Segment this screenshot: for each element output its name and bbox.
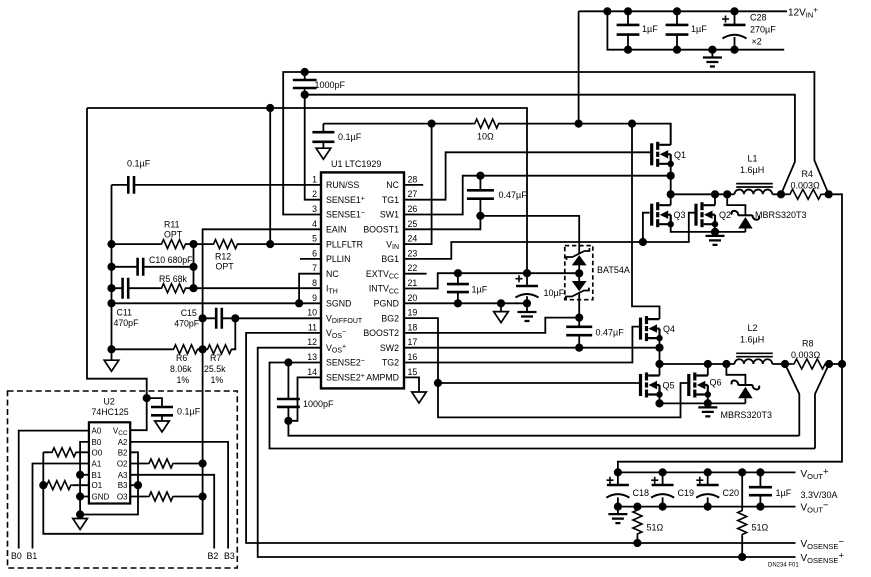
wire left ground bus vertical [111, 185, 113, 349]
svg-text:12: 12 [307, 337, 317, 347]
capacitor 10uF INTVCC bulk [516, 270, 565, 306]
transistor Q3 bottom MOSFET phase 1 [650, 202, 685, 227]
wire BG2 branch to Q6 gate [438, 383, 687, 417]
resistor R6 8.06k 1% [112, 345, 207, 385]
capacitor 1uF INTVCC [447, 270, 488, 306]
wire INTVCC distribution rail [87, 108, 527, 273]
wire pin 7 NC tie to SGND [299, 274, 321, 304]
svg-text:B3: B3 [224, 551, 235, 561]
svg-text:R5 68k: R5 68k [159, 274, 187, 284]
svg-text:MBRS320T3: MBRS320T3 [755, 210, 807, 220]
svg-text:B1: B1 [27, 551, 38, 561]
svg-text:3.3V/30A: 3.3V/30A [801, 490, 838, 500]
svg-text:470pF: 470pF [114, 318, 140, 328]
capacitor 1000pF sense filter top [293, 69, 346, 98]
ground U2 arrow [73, 515, 88, 530]
wire U2 A3 to B2 terminal [130, 475, 214, 549]
capacitor C10 680pF [112, 255, 194, 276]
wire SENSE2+ line to R8 left [288, 421, 799, 436]
pin 22 EXTVCC stub [404, 273, 427, 275]
transistor Q2 bottom MOSFET phase 1 [694, 202, 731, 227]
svg-text:TG2: TG2 [382, 358, 399, 368]
svg-text:1000pF: 1000pF [303, 399, 334, 409]
wire BG1 to Q2 gate [404, 213, 695, 259]
wire VIN pin riser [404, 124, 432, 245]
svg-text:U2: U2 [104, 397, 115, 407]
wire SENSE2+ pin 14 route [288, 377, 321, 420]
capacitor C11 470pF [112, 278, 161, 328]
svg-text:A2: A2 [118, 438, 128, 447]
svg-text:SENSE2−: SENSE2− [326, 358, 365, 368]
wire R8 kelvin right to SENSE2- line [815, 364, 829, 449]
wire phase1 source ground bar [671, 224, 746, 232]
wire TG2 to Q4 gate [404, 327, 639, 363]
capacitor C15 470pF [174, 308, 321, 329]
svg-text:16: 16 [408, 352, 418, 362]
wire VOUT+ rail [618, 471, 796, 473]
svg-text:4: 4 [312, 219, 317, 229]
svg-text:BG2: BG2 [381, 313, 399, 323]
svg-text:R6: R6 [176, 353, 187, 363]
wire Q6 drain riser [707, 364, 709, 376]
svg-text:C19: C19 [678, 488, 695, 498]
wire PGND pin line [404, 302, 527, 304]
svg-text:R12: R12 [215, 252, 231, 262]
svg-text:NC: NC [386, 180, 399, 190]
svg-text:L1: L1 [748, 154, 758, 164]
svg-text:13: 13 [307, 352, 317, 362]
svg-text:C11: C11 [117, 308, 133, 318]
svg-text:0.1µF: 0.1µF [177, 407, 201, 417]
capacitor 0.47uF boost1 [467, 173, 527, 220]
svg-text:BOOST2: BOOST2 [363, 328, 399, 338]
ground AMPMD arrow [412, 392, 427, 403]
capacitor 0.1uF RUN/SS [112, 159, 322, 194]
svg-text:20: 20 [408, 293, 418, 303]
svg-text:C20: C20 [723, 488, 740, 498]
svg-text:26: 26 [408, 204, 418, 214]
svg-text:PLLFLTR: PLLFLTR [326, 239, 363, 249]
svg-text:R8: R8 [802, 339, 814, 349]
svg-text:BG1: BG1 [381, 254, 399, 264]
wire INTVCC to PLLFLTR branch [269, 108, 271, 244]
capacitor C20 output bulk [696, 469, 739, 510]
inductor L2 1.6uH [660, 323, 786, 364]
svg-text:B0: B0 [11, 551, 22, 561]
svg-text:R7: R7 [210, 353, 221, 363]
ground phase1 earth [706, 236, 725, 245]
wire SW2 pin line [404, 347, 660, 349]
svg-text:OPT: OPT [216, 262, 235, 272]
resistor R4 0.003ohm current sense [778, 169, 832, 199]
svg-text:0.1µF: 0.1µF [127, 159, 151, 169]
svg-text:74HC125: 74HC125 [92, 407, 129, 417]
svg-text:0.003Ω: 0.003Ω [791, 181, 821, 191]
svg-text:SW2: SW2 [380, 343, 399, 353]
svg-text:21: 21 [408, 278, 418, 288]
svg-text:BOOST1: BOOST1 [363, 225, 399, 235]
svg-text:R11: R11 [164, 220, 180, 230]
wire BOOST2 pin route [404, 318, 579, 333]
svg-text:Q1: Q1 [674, 150, 686, 160]
wire EAIN trunk [43, 229, 321, 534]
ground input earth [703, 47, 722, 67]
inductor L1 1.6uH [671, 154, 781, 195]
pin 6 PLLIN stub [300, 258, 321, 260]
svg-text:TG1: TG1 [382, 195, 399, 205]
wire VOS+ pin 12 to VOSENSE+ line [258, 348, 796, 557]
wire SGND row pin 9 [112, 302, 322, 304]
svg-text:SW1: SW1 [380, 210, 399, 220]
svg-text:10Ω: 10Ω [477, 132, 494, 142]
svg-text:B3: B3 [118, 481, 128, 490]
svg-text:25.5k: 25.5k [204, 364, 226, 374]
resistor 51ohm VOSENSE+ termination [738, 469, 769, 560]
svg-text:19: 19 [408, 308, 418, 318]
svg-text:Q4: Q4 [663, 324, 675, 334]
wire U2 A1 to B1 terminal [33, 464, 89, 549]
svg-text:B2: B2 [118, 448, 128, 457]
svg-text:B2: B2 [208, 551, 219, 561]
diode MBRS320T3 phase 2 [721, 361, 773, 420]
transistor Q4 top MOSFET phase 2 [639, 316, 675, 341]
wire input cap ground rail [607, 11, 784, 49]
svg-text:MBRS320T3: MBRS320T3 [721, 410, 773, 420]
wire Q4 source to SW2 node [659, 338, 661, 375]
svg-text:PGND: PGND [374, 299, 399, 309]
svg-text:A3: A3 [118, 471, 128, 480]
wire SENSE1- top line pin3 to R4 right [283, 72, 829, 215]
svg-text:1.6µH: 1.6µH [740, 165, 764, 175]
svg-text:A1: A1 [92, 460, 102, 469]
svg-text:15: 15 [408, 367, 418, 377]
svg-text:10: 10 [307, 308, 317, 318]
wire phase2 source ground bar [660, 395, 746, 404]
wire INTVCC left trunk to U2 VCC [87, 108, 147, 430]
wire BG1 branch to Q3 gate [643, 213, 650, 242]
pin 28 NC stub [404, 184, 423, 186]
diode BAT54A dual schottky [565, 246, 630, 318]
wire Q2 drain riser [714, 194, 716, 205]
transistor Q1 top MOSFET phase 1 [650, 142, 686, 167]
svg-text:A0: A0 [92, 427, 102, 436]
svg-text:U1 LTC1929: U1 LTC1929 [331, 159, 381, 169]
svg-text:SGND: SGND [326, 299, 351, 309]
capacitor C28 270uF x2 input bulk [722, 8, 776, 53]
resistor R7 25.5k 1% [204, 318, 235, 385]
wire VOS- pin 11 to VOSENSE- line [246, 333, 795, 543]
wire 12V feed down-left [578, 11, 580, 123]
svg-text:470pF: 470pF [174, 318, 200, 328]
wire AMPMD to ground [404, 377, 419, 391]
svg-text:24: 24 [408, 234, 418, 244]
svg-text:R4: R4 [802, 169, 814, 179]
transistor Q6 bottom MOSFET phase 2 [687, 373, 721, 398]
svg-text:28: 28 [408, 174, 418, 184]
svg-text:1µF: 1µF [691, 24, 707, 34]
wire VOUT- rail [618, 506, 796, 508]
svg-text:AMPMD: AMPMD [366, 373, 399, 383]
wire TG1 to Q1 gate [404, 152, 650, 199]
svg-text:22: 22 [408, 263, 418, 273]
svg-text:51Ω: 51Ω [752, 523, 769, 533]
svg-text:SENSE1+: SENSE1+ [326, 195, 365, 205]
svg-text:0.47µF: 0.47µF [596, 328, 625, 338]
wire R4 output to VOUT feed [618, 194, 842, 472]
capacitor 0.1uF U2 bypass [144, 395, 201, 432]
node U2 clock buffer dashed boundary [8, 391, 238, 568]
svg-text:BAT54A: BAT54A [597, 265, 630, 275]
ground phase2 earth [698, 407, 717, 416]
resistor U2 O2 summing [130, 459, 206, 468]
wire U2 A2 to B3 terminal [130, 442, 228, 549]
svg-text:C28: C28 [750, 13, 767, 23]
svg-text:PLLIN: PLLIN [326, 254, 350, 264]
svg-text:NC: NC [326, 269, 339, 279]
svg-text:2: 2 [312, 189, 317, 199]
svg-text:B1: B1 [92, 471, 102, 480]
svg-text:0.003Ω: 0.003Ω [791, 350, 821, 360]
svg-text:Q5: Q5 [663, 381, 675, 391]
wire VIN 10ohm line [323, 124, 670, 145]
svg-text:0.1µF: 0.1µF [338, 132, 362, 142]
svg-text:7: 7 [312, 263, 317, 273]
ground PGND arrow [494, 300, 509, 323]
wire INTVCC pin line [404, 273, 579, 288]
svg-text:9: 9 [312, 293, 317, 303]
svg-text:1µF: 1µF [472, 285, 488, 295]
svg-text:DN234 F01: DN234 F01 [768, 563, 799, 569]
svg-text:17: 17 [408, 337, 418, 347]
svg-text:23: 23 [408, 248, 418, 258]
op-amp U2 74HC125 buffer box [89, 422, 130, 503]
wire SENSE2- pin 13 route [270, 363, 816, 449]
svg-text:0.47µF: 0.47µF [499, 190, 528, 200]
svg-text:8.06k: 8.06k [170, 364, 192, 374]
svg-text:8: 8 [312, 278, 317, 288]
wire 12V input top rail [579, 10, 787, 12]
resistor U2 O3 summing [130, 492, 206, 501]
resistor U2 O1 summing [40, 481, 89, 490]
svg-text:1.6µH: 1.6µH [740, 335, 764, 345]
svg-text:1000pF: 1000pF [315, 80, 346, 90]
svg-text:11: 11 [308, 322, 317, 332]
wire Q1 drain riser [670, 124, 672, 145]
capacitor 1uF output [749, 469, 792, 510]
svg-text:SENSE2+: SENSE2+ [326, 373, 365, 383]
resistor U2 O0 summing [43, 448, 89, 457]
capacitor 0.1uF VIN bypass [312, 124, 361, 160]
svg-text:14: 14 [307, 367, 317, 377]
resistor R8 0.003ohm current sense [782, 339, 845, 369]
transistor Q5 bottom MOSFET phase 2 [639, 373, 675, 398]
resistor R5 68k [159, 274, 321, 293]
svg-text:EAIN: EAIN [326, 225, 347, 235]
resistor 10ohm [473, 119, 500, 128]
resistor 51ohm VOSENSE- termination [633, 503, 664, 546]
capacitor C19 output bulk [651, 469, 694, 510]
svg-text:C10 680pF: C10 680pF [149, 255, 193, 265]
svg-text:1%: 1% [177, 375, 190, 385]
resistor R11 OPT [112, 220, 213, 249]
svg-text:Q2: Q2 [719, 210, 731, 220]
op-amp U1 LTC1929 controller box [321, 172, 404, 388]
ground VOUT- earth [608, 507, 627, 523]
wire SW1 pin line [404, 176, 671, 215]
svg-text:OPT: OPT [164, 230, 183, 240]
svg-text:25: 25 [408, 219, 418, 229]
wire U2 A0 to B0 terminal [19, 431, 89, 549]
svg-text:O3: O3 [117, 493, 128, 502]
svg-text:1%: 1% [211, 375, 224, 385]
svg-text:O1: O1 [92, 481, 103, 490]
wire BG2 to Q5 gate [404, 318, 639, 383]
capacitor 1000pF sense filter bottom [277, 359, 334, 424]
resistor R12 OPT [212, 240, 321, 272]
capacitor C18 output bulk [606, 472, 649, 509]
ground left network arrow [104, 349, 119, 371]
wire R8 kelvin left to SENSE2+ line [785, 364, 799, 436]
svg-text:C15: C15 [181, 308, 197, 318]
svg-text:6: 6 [312, 248, 317, 258]
wire U2 enable ground bus [80, 442, 138, 515]
wire Q1 source to SW node [670, 164, 672, 205]
svg-text:RUN/SS: RUN/SS [326, 180, 359, 190]
svg-text:1µF: 1µF [776, 488, 792, 498]
svg-text:270µF: 270µF [750, 25, 776, 35]
svg-text:18: 18 [408, 322, 418, 332]
svg-text:Q6: Q6 [710, 378, 722, 388]
wire 12V branch to Q4 drain [632, 124, 660, 319]
svg-text:5: 5 [312, 234, 317, 244]
ground 10uF earth [518, 303, 537, 321]
capacitor 1uF input B [666, 8, 708, 53]
svg-text:L2: L2 [748, 323, 758, 333]
svg-text:B0: B0 [92, 438, 102, 447]
svg-text:10µF: 10µF [544, 288, 565, 298]
svg-text:Q3: Q3 [674, 210, 686, 220]
svg-text:1: 1 [312, 174, 317, 184]
capacitor 1uF input A [617, 8, 659, 53]
svg-text:O0: O0 [92, 448, 103, 457]
svg-text:1µF: 1µF [642, 24, 658, 34]
node top rail junction [604, 8, 610, 14]
svg-text:GND: GND [92, 493, 110, 502]
svg-text:×2: ×2 [752, 37, 762, 47]
svg-text:27: 27 [408, 189, 418, 199]
svg-text:3: 3 [312, 204, 317, 214]
svg-text:O2: O2 [117, 460, 128, 469]
wire SENSE1+ line to R4 left [305, 95, 795, 200]
wire BOOST1 pin to boost cap and BAT54A [404, 216, 579, 254]
svg-text:SENSE1−: SENSE1− [326, 210, 365, 220]
wire compensation node vertical [193, 244, 195, 288]
diode MBRS320T3 phase 1 [724, 191, 807, 232]
svg-text:51Ω: 51Ω [647, 523, 664, 533]
svg-text:C18: C18 [633, 488, 650, 498]
capacitor 0.47uF boost2 [566, 318, 624, 351]
